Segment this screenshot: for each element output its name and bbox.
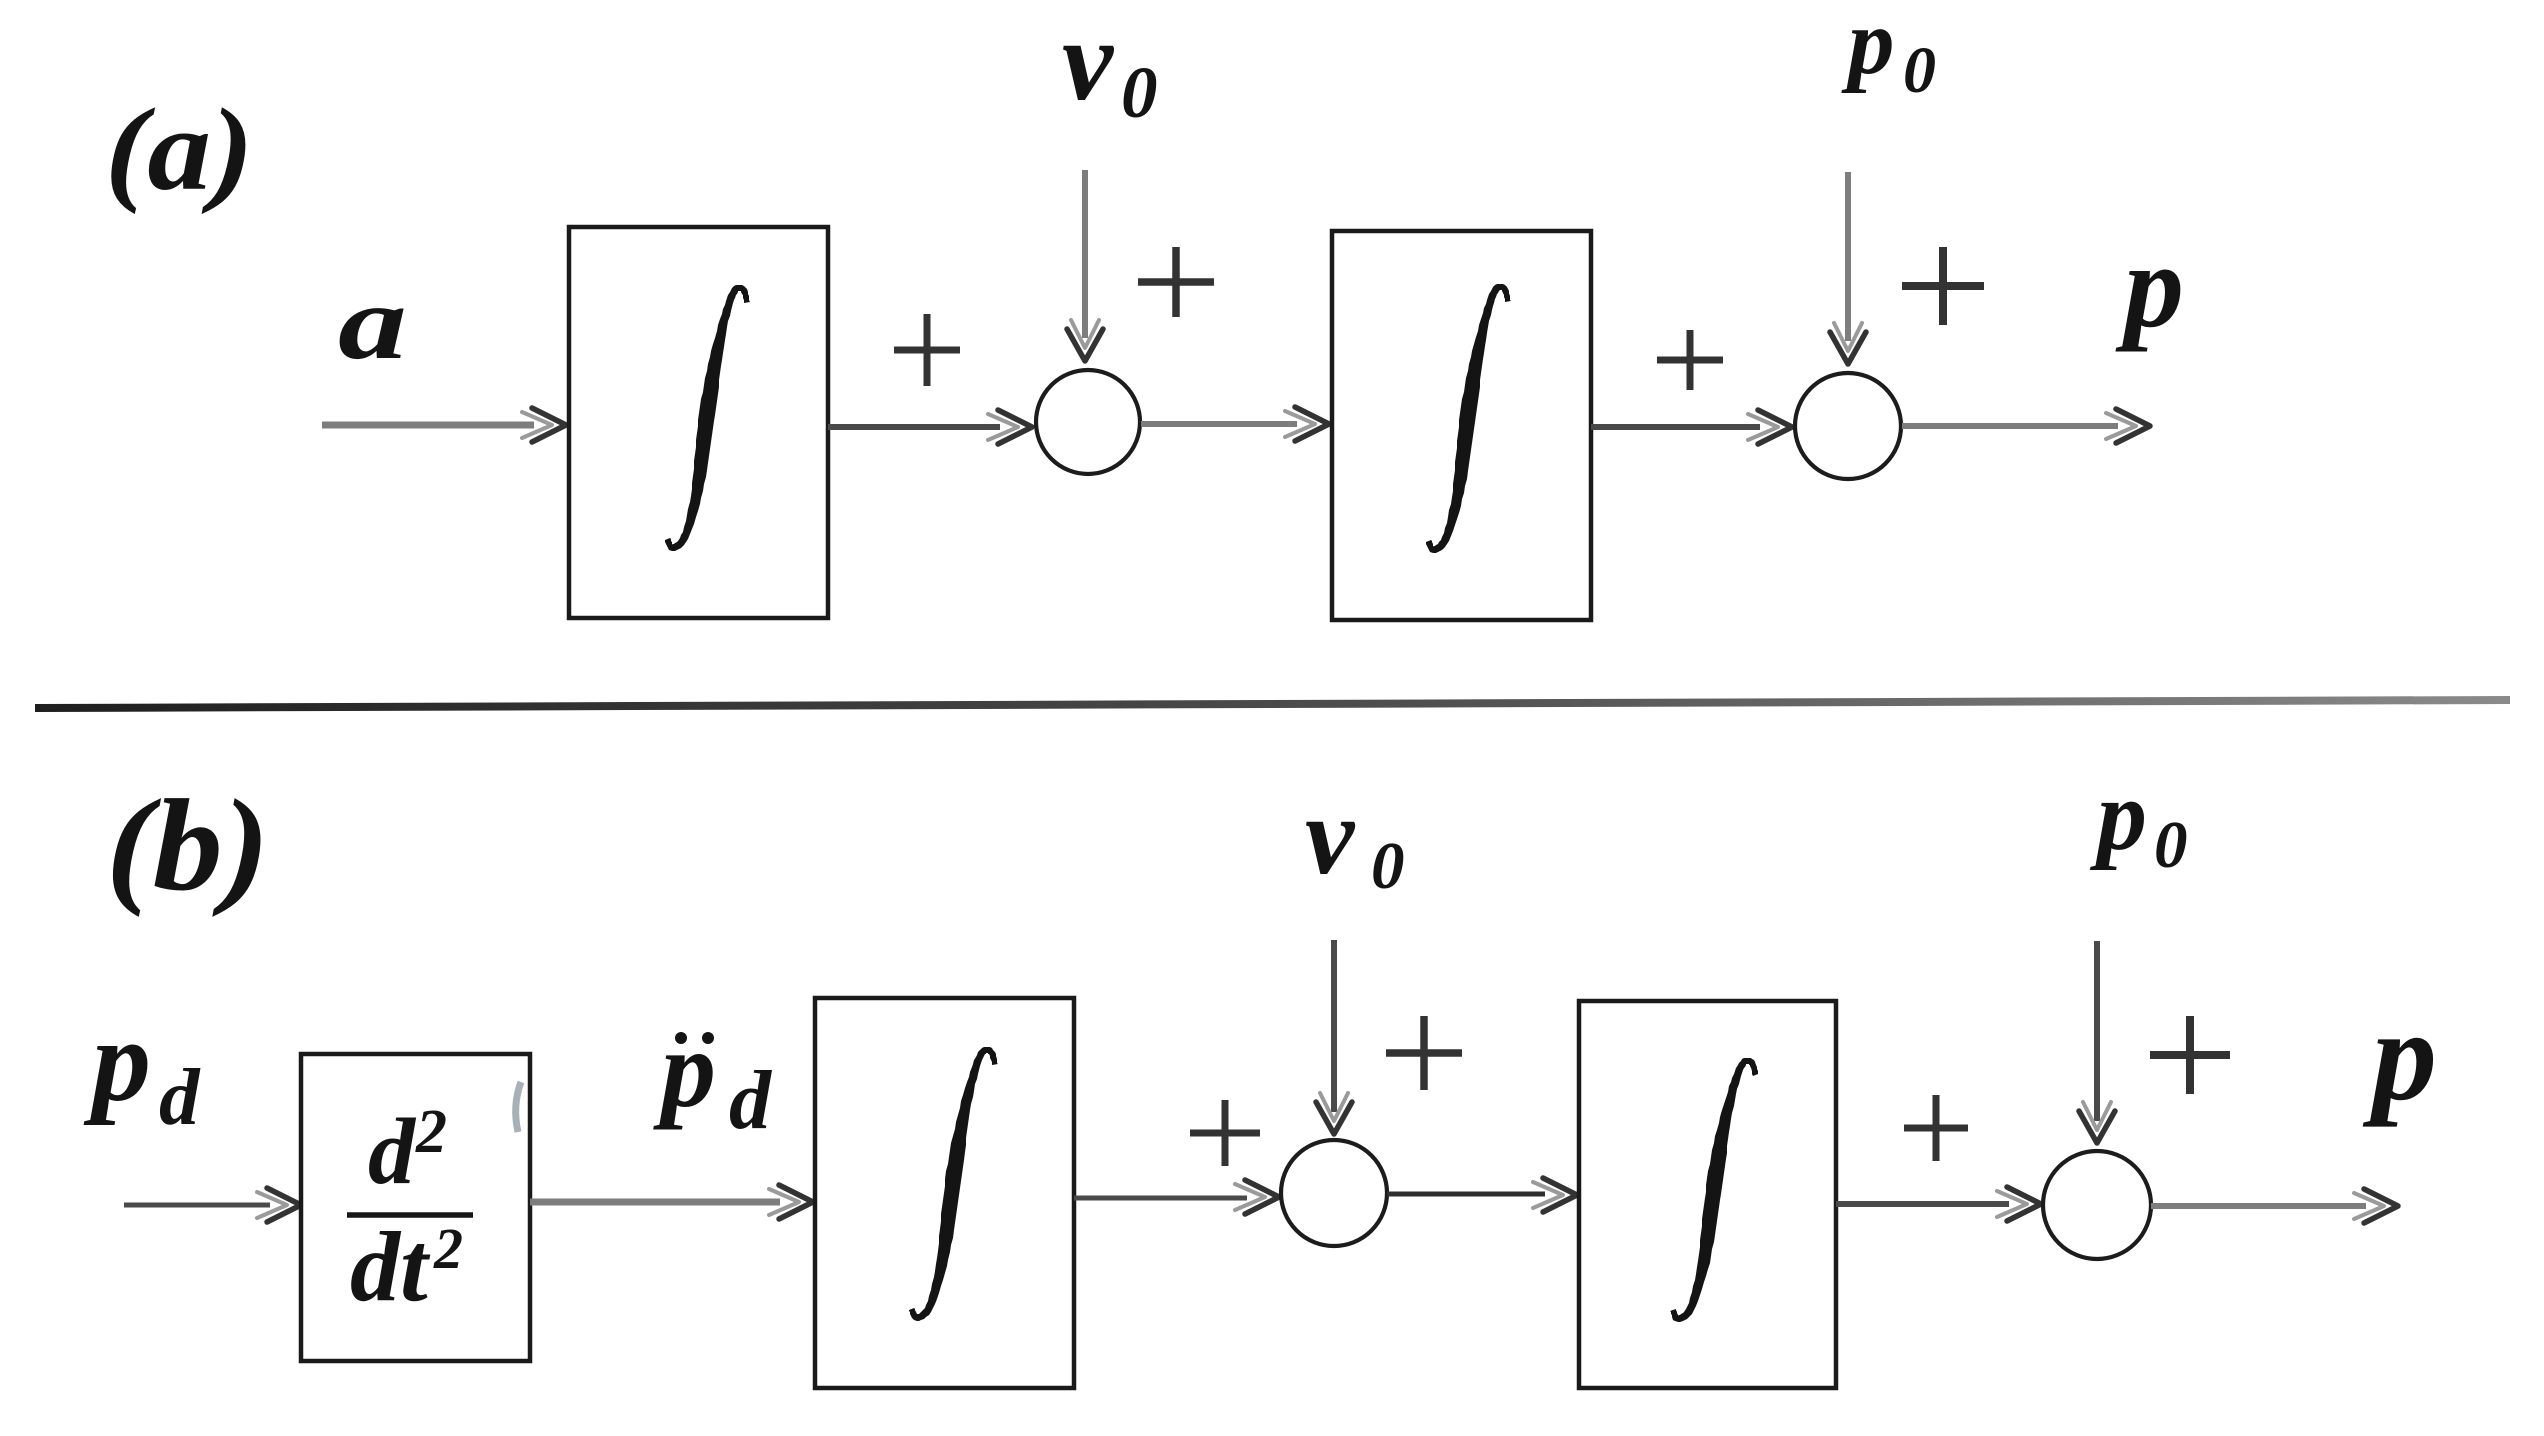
plus sign at summer 1 horizontal input (a) <box>894 314 960 386</box>
wire: derivative block to integrator 1 (b) <box>530 1185 813 1219</box>
svg-text:2: 2 <box>433 1216 463 1281</box>
svg-text:p: p <box>83 995 151 1126</box>
svg-text:0: 0 <box>2154 808 2188 882</box>
label (a) <box>105 84 254 215</box>
wire: summer 1 to integrator 2 (b) <box>1387 1178 1577 1212</box>
svg-text:0: 0 <box>1903 34 1936 107</box>
d2 numerator of derivative block <box>368 1098 447 1204</box>
summer junction 1 (a) <box>1036 370 1140 474</box>
wire: p0 arrow into summer 2 (a) <box>1830 172 1866 364</box>
svg-text:dt: dt <box>350 1211 431 1322</box>
svg-text:v: v <box>1305 775 1356 898</box>
wire: v0 arrow into summer 1 (b) <box>1316 940 1352 1134</box>
block: integrator 2 (b) <box>1579 1001 1836 1388</box>
plus sign at summer 2 horizontal input (a) <box>1657 330 1723 390</box>
summer junction 1 (b) <box>1281 1140 1387 1246</box>
plus sign at summer 2 vertical input (a) <box>1902 247 1984 325</box>
integral sign of integrator 1 (a) <box>665 285 750 551</box>
stray tick mark inside derivative block <box>516 1082 521 1132</box>
node label v0 (initial velocity, a) <box>1062 0 1158 133</box>
svg-text:v: v <box>1062 0 1115 124</box>
plus sign at summer 2 vertical input (b) <box>2150 1016 2230 1094</box>
node label p (output, a) <box>2115 219 2184 352</box>
node label p (output, b) <box>2362 984 2437 1128</box>
wire: integrator 2 to summer 2 (b) <box>1836 1187 2041 1221</box>
wire: output p (b) <box>2151 1189 2398 1223</box>
plus sign at summer 1 horizontal input (b) <box>1190 1100 1260 1166</box>
summer junction 2 (a) <box>1795 373 1901 479</box>
wire: integrator 2 to summer 2 (a) <box>1591 410 1792 444</box>
svg-text:a: a <box>338 263 407 381</box>
node label v0 (initial velocity, b) <box>1305 775 1405 903</box>
svg-text:p: p <box>2089 760 2147 871</box>
svg-text:(b): (b) <box>106 773 269 918</box>
block: integrator 2 (a) <box>1332 231 1591 620</box>
node label a (input signal) <box>338 263 407 381</box>
svg-text:p: p <box>1841 0 1895 94</box>
svg-text:p: p <box>2362 984 2437 1128</box>
node label pdd (desired acceleration, b) <box>653 1008 773 1147</box>
fraction bar of derivative block <box>347 1212 473 1218</box>
wire: integrator 1 to summer 1 (a) <box>828 410 1032 444</box>
plus sign at summer 1 vertical input (b) <box>1386 1016 1462 1090</box>
svg-text:p: p <box>653 1008 716 1130</box>
wire: v0 arrow into summer 1 (a) <box>1067 170 1103 361</box>
summer junction 2 (b) <box>2043 1151 2151 1259</box>
svg-text:(a): (a) <box>105 84 254 215</box>
dt2 denominator of derivative block <box>350 1211 463 1322</box>
svg-text:p: p <box>2115 219 2184 352</box>
svg-text:2: 2 <box>415 1098 447 1166</box>
svg-text:d: d <box>159 1052 201 1142</box>
svg-text:0: 0 <box>1121 52 1158 133</box>
wire: input pd into d2/dt2 block (b) <box>124 1188 301 1222</box>
plus sign at summer 2 horizontal input (b) <box>1904 1095 1968 1161</box>
wire: summer 1 to integrator 2 (a) <box>1141 407 1329 441</box>
svg-text:d: d <box>729 1054 773 1147</box>
block: integrator 1 (a) <box>569 227 828 618</box>
wire: p0 arrow into summer 2 (b) <box>2079 941 2115 1143</box>
node label pd (desired position, b) <box>83 995 201 1142</box>
label (b) <box>106 773 269 918</box>
node label p0 (initial position, a) <box>1841 0 1936 107</box>
wire: input a into integrator 1 <box>322 408 566 442</box>
integral sign of integrator 2 (b) <box>1670 1058 1758 1322</box>
block: integrator 1 (b) <box>815 998 1074 1388</box>
node label p0 (initial position, b) <box>2089 760 2188 882</box>
integral sign of integrator 2 (a) <box>1426 284 1511 553</box>
integral sign of integrator 1 (b) <box>909 1047 998 1321</box>
svg-text:0: 0 <box>1371 829 1405 903</box>
svg-text:d: d <box>368 1100 417 1204</box>
wire: integrator 1 to summer 1 (b) <box>1074 1180 1279 1214</box>
separator line between (a) and (b) <box>35 700 2510 708</box>
wire: output p (a) <box>1902 409 2150 443</box>
plus sign at summer 1 vertical input (a) <box>1138 247 1214 317</box>
block: second derivative d2/dt2 (b) <box>301 1054 530 1361</box>
